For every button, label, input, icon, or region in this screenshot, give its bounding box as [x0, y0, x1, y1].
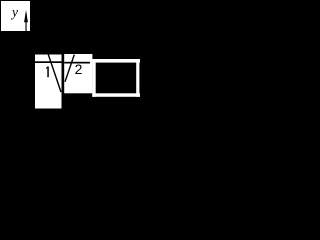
window 1 title line — [35, 61, 62, 63]
window 2 — [64, 54, 92, 93]
window 1 — [35, 55, 62, 109]
box y (small plot box top-left) — [1, 1, 30, 31]
label 1 — [46, 67, 49, 78]
background — [0, 0, 141, 115]
diagonal slash in window 2 — [65, 55, 74, 82]
svg-text:2: 2 — [75, 61, 83, 77]
window 2 title line — [64, 62, 90, 64]
outline rectangle (empty window frame) — [92, 59, 140, 97]
svg-text:y: y — [10, 5, 18, 20]
diagonal slash in window 1 — [48, 55, 61, 93]
arrow axis (up arrow inside box y) — [24, 10, 28, 31]
